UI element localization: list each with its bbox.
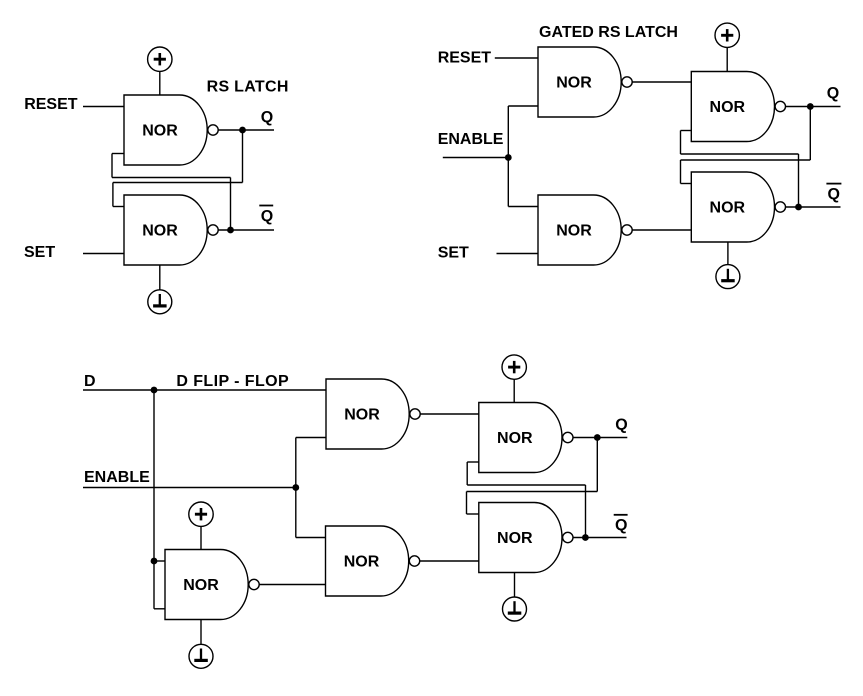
label Qbar (RS latch) xyxy=(259,206,273,225)
svg-text:Q: Q xyxy=(261,208,273,225)
NOR gate U2 (RS latch bottom) xyxy=(124,195,218,265)
wire Qbar feedback vertical (flip-flop) xyxy=(585,485,587,538)
label Qbar (gated latch) xyxy=(826,184,841,204)
svg-text:GATED RS LATCH: GATED RS LATCH xyxy=(539,24,678,41)
NOR gate U5 (gated latch output top) xyxy=(691,72,785,142)
wire power to gate U5 xyxy=(726,48,728,72)
wire Q output (flip-flop) xyxy=(573,437,627,439)
svg-text:SET: SET xyxy=(438,245,469,262)
NOR gate U3 (gated latch reset) xyxy=(538,47,632,117)
wire SET input (gated latch) xyxy=(497,253,539,255)
wire stub to U9 input 2 xyxy=(467,461,479,463)
svg-text:D: D xyxy=(84,373,96,390)
wire ENABLE vertical up (flip-flop) xyxy=(295,438,297,488)
wire D vertical to inverter (flip-flop) xyxy=(153,390,155,561)
ground symbol (gated latch) xyxy=(716,265,740,289)
wire stub to U10 input 1 xyxy=(467,513,480,515)
node Q (flip-flop) xyxy=(594,434,601,441)
power symbol + (flip-flop inverter) xyxy=(189,502,213,526)
wire Qbar output (flip-flop) xyxy=(573,537,626,539)
node D (flip-flop) xyxy=(151,387,158,394)
NOR gate U10 (flip-flop output bottom) xyxy=(479,503,573,573)
wire stub to U11 input 2 xyxy=(154,608,166,610)
wire ENABLE input (flip-flop) xyxy=(83,487,296,489)
wire power to gate U1 xyxy=(159,71,161,95)
wire Qbar output (RS latch) xyxy=(218,229,274,231)
NOR gate U7 (flip-flop top middle) xyxy=(326,379,420,449)
wire Q output (gated latch) xyxy=(786,106,841,108)
NOR gate U4 (gated latch set) xyxy=(538,195,632,265)
wire stub to U7 input 2 xyxy=(296,437,327,439)
node Qbar (flip-flop) xyxy=(582,534,589,541)
wire Q feedback left vertical (flip-flop) xyxy=(466,492,468,515)
ground symbol (flip-flop inverter) xyxy=(189,644,213,668)
wire ENABLE vertical down (flip-flop) xyxy=(295,488,297,538)
svg-text:Q: Q xyxy=(828,186,840,203)
wire ground from gate U6 xyxy=(727,242,729,265)
wire ground from gate U10 xyxy=(514,573,516,598)
svg-text:RS LATCH: RS LATCH xyxy=(207,79,289,96)
node U11 input tie (flip-flop) xyxy=(151,558,158,565)
wire U11 input tie vertical xyxy=(153,561,155,609)
node ENABLE (gated latch) xyxy=(505,154,512,161)
svg-text:RESET: RESET xyxy=(438,49,492,66)
wire stub to U6 input 1 xyxy=(681,183,693,185)
wire U7 output to U9 xyxy=(420,413,479,415)
node Q (gated latch) xyxy=(807,103,814,110)
wire power to gate U11 xyxy=(200,526,202,549)
ground symbol (RS latch) xyxy=(148,290,172,314)
NOR gate U9 (flip-flop output top) xyxy=(479,403,573,473)
wire U8 output to U10 xyxy=(420,560,479,562)
wire stub to U8 input 1 xyxy=(296,537,327,539)
svg-text:SET: SET xyxy=(24,244,55,261)
wire stub to U1 input 2 xyxy=(112,153,125,155)
wire Qbar feedback horizontal (RS latch) xyxy=(112,177,231,179)
wire stub to U3 input 2 xyxy=(508,105,539,107)
wire Q feedback left vertical (gated latch) xyxy=(680,160,682,184)
wire Qbar feedback left vertical (gated latch) xyxy=(680,131,682,155)
wire ground from gate U11 xyxy=(200,620,202,645)
wire Qbar feedback horizontal (flip-flop) xyxy=(467,484,585,486)
wire Q feedback horizontal (flip-flop) xyxy=(467,491,598,493)
wire Q output (RS latch) xyxy=(218,129,274,131)
wire U4 output to U6 xyxy=(632,229,691,231)
wire stub to U2 input 1 xyxy=(113,206,125,208)
svg-text:Q: Q xyxy=(615,517,627,534)
wire stub to U5 input 2 xyxy=(681,130,693,132)
wire stub to U11 input 1 xyxy=(154,560,166,562)
NOR gate U1 (RS latch top) xyxy=(124,95,218,165)
wire Q feedback left vertical (RS latch) xyxy=(112,183,114,207)
power symbol + (RS latch) xyxy=(148,47,172,71)
node Qbar (RS latch) xyxy=(227,227,234,234)
svg-text:ENABLE: ENABLE xyxy=(84,469,150,486)
wire Q feedback horizontal (gated latch) xyxy=(681,159,811,161)
power symbol + (gated latch) xyxy=(715,23,739,47)
wire Qbar feedback vertical (RS latch) xyxy=(230,178,232,231)
wire RESET input (RS latch) xyxy=(83,106,124,108)
label Qbar (flip-flop) xyxy=(614,515,628,534)
wire ground from gate U2 xyxy=(159,265,161,290)
wire D input (flip-flop) xyxy=(83,389,326,391)
wire Q feedback vertical (flip-flop) xyxy=(596,438,598,492)
node Q (RS latch) xyxy=(239,127,246,134)
svg-text:ENABLE: ENABLE xyxy=(438,131,504,148)
wire U3 output to U5 xyxy=(632,81,691,83)
node ENABLE (flip-flop) xyxy=(292,484,299,491)
wire Qbar feedback left vertical (RS latch) xyxy=(111,154,113,178)
svg-text:D FLIP - FLOP: D FLIP - FLOP xyxy=(176,373,289,390)
svg-text:RESET: RESET xyxy=(24,96,78,113)
power symbol + (flip-flop output) xyxy=(502,355,526,379)
wire U11 output to U8 xyxy=(259,584,325,586)
wire ENABLE input (gated latch) xyxy=(443,157,509,159)
wire Q feedback vertical (gated latch) xyxy=(809,107,811,161)
wire Q feedback vertical (RS latch) xyxy=(242,130,244,183)
svg-text:Q: Q xyxy=(615,417,627,434)
wire Q feedback horizontal (RS latch) xyxy=(113,182,243,184)
wire ENABLE vertical (gated latch) xyxy=(507,106,509,207)
wire power to gate U9 xyxy=(513,379,515,402)
NOR gate U11 (flip-flop inverter) xyxy=(165,550,259,620)
wire RESET input (gated latch) xyxy=(495,57,538,59)
NOR gate U8 (flip-flop bottom middle) xyxy=(326,526,420,596)
wire stub to U4 input 1 xyxy=(508,206,539,208)
wire SET input (RS latch) xyxy=(83,253,124,255)
wire Qbar feedback left vertical (flip-flop) xyxy=(466,462,468,485)
wire Qbar output (gated latch) xyxy=(786,206,841,208)
ground symbol (flip-flop output) xyxy=(503,597,527,621)
wire Qbar feedback vertical (gated latch) xyxy=(798,154,800,207)
svg-text:Q: Q xyxy=(261,109,273,126)
NOR gate U6 (gated latch output bottom) xyxy=(691,172,785,242)
node Qbar (gated latch) xyxy=(795,204,802,211)
svg-text:Q: Q xyxy=(827,85,839,102)
wire Qbar feedback horizontal (gated latch) xyxy=(681,153,799,155)
